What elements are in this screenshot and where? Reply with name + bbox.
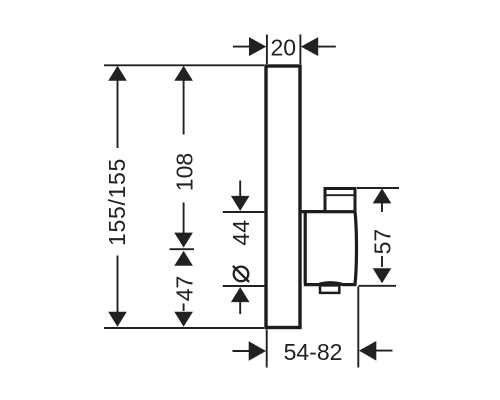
svg-text:57: 57: [370, 229, 396, 255]
svg-text:47: 47: [171, 276, 197, 302]
svg-text:108: 108: [172, 153, 198, 191]
svg-text:54-82: 54-82: [284, 339, 343, 365]
svg-text:155/155: 155/155: [104, 158, 130, 246]
svg-text:20: 20: [271, 35, 297, 61]
svg-text:44: 44: [228, 220, 254, 246]
